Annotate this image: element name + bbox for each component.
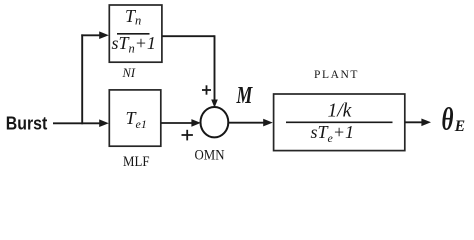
svg-text:MLF: MLF — [123, 154, 150, 170]
arrowhead into MLF block — [99, 119, 109, 127]
node M signal label — [236, 81, 254, 108]
fraction bar NI — [117, 33, 150, 35]
svg-text:θ: θ — [442, 101, 454, 136]
svg-text:M: M — [236, 81, 254, 108]
label plus left — [182, 130, 193, 141]
arrowhead into PLANT block — [263, 119, 273, 127]
arrowhead into NI block — [99, 31, 109, 39]
svg-text:NI: NI — [122, 66, 136, 80]
arrowhead into summing junction top — [211, 100, 218, 108]
wire branch vertical up — [81, 34, 83, 124]
wire summing junction to PLANT — [229, 122, 268, 124]
wire branch horizontal to NI — [81, 34, 101, 36]
block PLANT box — [274, 94, 405, 151]
wire main input horizontal — [53, 122, 103, 124]
svg-text:OMN: OMN — [195, 147, 225, 163]
arrowhead output — [421, 119, 431, 127]
wire down to summing junction — [214, 35, 216, 102]
svg-text:E: E — [454, 118, 465, 135]
label plus top — [202, 85, 211, 94]
svg-text:sTe+1: sTe+1 — [311, 122, 355, 145]
node thetaE output label — [442, 101, 454, 136]
svg-text:Burst: Burst — [6, 114, 48, 134]
arrowhead into summing junction left — [191, 119, 200, 127]
wire PLANT output — [405, 121, 425, 123]
svg-text:1/k: 1/k — [328, 101, 352, 122]
fraction bar PLANT — [286, 121, 393, 123]
summing junction OMN circle — [201, 107, 229, 137]
block MLF box — [109, 90, 161, 146]
block NI box — [109, 5, 162, 62]
wire MLF output to summing junction — [161, 122, 195, 124]
svg-text:PLANT: PLANT — [314, 69, 359, 81]
wire NI output horizontal — [162, 35, 215, 37]
